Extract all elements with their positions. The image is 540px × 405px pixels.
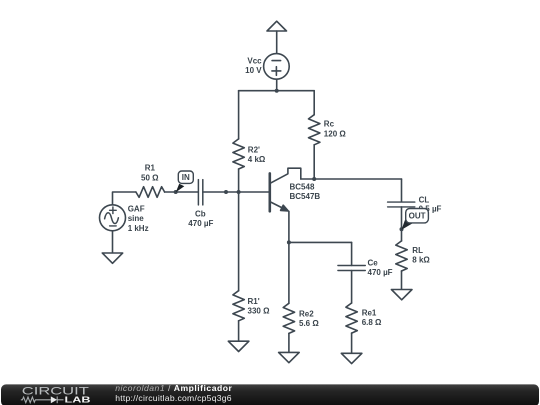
svg-text:5.6 Ω: 5.6 Ω (299, 319, 319, 328)
wire Rc to collector node (313, 145, 315, 179)
wire CL to OUT node to RL (401, 207, 403, 241)
transistor Q1 emitter lead (271, 202, 287, 210)
wire emitter node to Ce (289, 241, 352, 243)
wire down to CL cap (401, 179, 403, 202)
transistor Q1 base bar (268, 173, 271, 211)
node rail/Vcc (275, 89, 279, 93)
svg-text:470 µF: 470 µF (188, 219, 213, 228)
wire Re1 to ground (351, 333, 353, 353)
junction node dots (174, 89, 404, 245)
node IN (174, 190, 178, 194)
logo resistor squiggle and diode (21, 396, 64, 403)
wire Ce to Re1 (351, 271, 353, 304)
Vcc plus sign (272, 70, 281, 72)
wire R2' to base node to R1' (238, 169, 240, 291)
flag OUT (401, 209, 428, 230)
svg-text:Ce: Ce (368, 259, 379, 268)
svg-text:Rc: Rc (324, 120, 335, 129)
svg-text:4 kΩ: 4 kΩ (248, 155, 266, 164)
svg-text:330 Ω: 330 Ω (248, 307, 271, 316)
node base divider (237, 190, 241, 194)
source GAF circle (100, 205, 126, 231)
svg-text:CL: CL (419, 196, 430, 205)
transistor Q1 collector lead (271, 168, 301, 183)
svg-text:http://circuitlab.com/cp5q3g6: http://circuitlab.com/cp5q3g6 (115, 393, 232, 403)
svg-text:120 Ω: 120 Ω (324, 129, 347, 138)
capacitor Cb (197, 180, 199, 205)
svg-text:IN: IN (182, 173, 190, 182)
svg-text:Vcc: Vcc (247, 57, 262, 66)
resistor Rc (309, 115, 320, 145)
flag IN (176, 171, 194, 192)
wire RL to ground (401, 271, 403, 290)
Vcc minus sign (272, 60, 281, 62)
ground R1' (228, 341, 249, 351)
svg-text:RL: RL (412, 246, 423, 255)
wire Vcc source to rail (276, 79, 278, 91)
wire down to Ce cap (351, 242, 353, 265)
resistor RL (396, 241, 407, 271)
node collector/Rc (312, 177, 316, 181)
svg-text:50 Ω: 50 Ω (141, 173, 159, 182)
resistor R2' (233, 139, 244, 169)
wire Re2 to ground (288, 333, 290, 352)
wire R1' to ground (238, 321, 240, 341)
wire R1 to IN node to Cb (165, 191, 199, 193)
resistor Re2 (283, 303, 294, 333)
svg-text:BC548: BC548 (290, 183, 315, 192)
capacitor Ce (338, 265, 365, 267)
resistor Re1 (346, 303, 357, 333)
wire collector rail to CL (301, 178, 402, 180)
node emitter/Ce (287, 240, 291, 244)
voltage source Vcc circle (264, 54, 290, 80)
power flag arrow (Vcc rail) (267, 21, 287, 31)
logo diode triangle (51, 396, 57, 403)
svg-text:8 kΩ: 8 kΩ (412, 256, 430, 265)
wire GAF top to R1 (113, 192, 136, 205)
svg-text:470 µF: 470 µF (368, 268, 393, 277)
svg-text:10 V: 10 V (245, 66, 262, 75)
ground Re1 (341, 353, 362, 363)
wire rail to Rc (313, 91, 315, 115)
svg-text:Re1: Re1 (362, 309, 377, 318)
svg-text:R1': R1' (248, 297, 260, 306)
wire arrow to Vcc source (276, 31, 278, 54)
node OUT (400, 227, 404, 231)
resistor R1 (136, 187, 165, 198)
wire GAF bottom to ground (112, 231, 114, 253)
svg-text:sine: sine (128, 214, 145, 223)
transistor Q1 emitter arrow (281, 205, 289, 211)
svg-text:BC547B: BC547B (290, 192, 321, 201)
svg-text:OUT: OUT (409, 212, 426, 221)
resistor R1' (233, 291, 244, 321)
wire top rail horizontal (239, 90, 315, 92)
ground Re2 (279, 352, 300, 362)
node after Cb (224, 190, 228, 194)
capacitor CL (388, 201, 415, 203)
svg-text:GAF: GAF (128, 205, 145, 214)
GAF minus sign (110, 225, 117, 227)
GAF sine wave (105, 213, 119, 224)
svg-text:R2': R2' (248, 146, 260, 155)
svg-text:LAB: LAB (65, 394, 91, 404)
svg-text:Cb: Cb (195, 210, 206, 219)
wire Cb to base (203, 191, 270, 193)
svg-text:Re2: Re2 (299, 310, 314, 319)
wire emitter down (288, 211, 290, 303)
svg-text:nicoroldan1 / Amplificador: nicoroldan1 / Amplificador (115, 383, 232, 393)
ground RL (391, 290, 412, 300)
wire rail to R2' (238, 91, 240, 139)
svg-text:1 kHz: 1 kHz (128, 224, 149, 233)
ground GAF (102, 253, 122, 263)
svg-text:6.8 Ω: 6.8 Ω (362, 318, 382, 327)
svg-text:R1: R1 (145, 164, 156, 173)
GAF plus sign (110, 209, 117, 211)
bottom credit bar (1, 383, 539, 405)
